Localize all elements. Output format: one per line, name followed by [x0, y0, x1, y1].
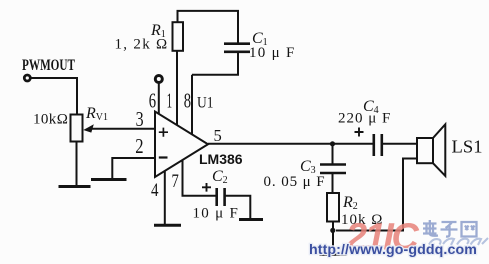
pin 6 terminal circle [155, 76, 162, 83]
svg-text:2: 2 [135, 134, 143, 158]
ground RV1 [59, 185, 91, 188]
wire RV1 bottom to ground [76, 142, 78, 186]
wire C2 right to ground [225, 196, 251, 219]
svg-text:10 μ F: 10 μ F [249, 45, 296, 61]
wire pin 7 to C2 [183, 160, 217, 195]
resistor R2 body [327, 193, 339, 222]
svg-text:7: 7 [172, 171, 179, 192]
wire pin 6 [158, 83, 160, 114]
wire C1 bottom to pin 8 rail [192, 52, 238, 75]
wire C3 top [332, 144, 334, 164]
junction node at pin5/C3 [330, 141, 335, 146]
svg-text:3: 3 [136, 107, 144, 131]
svg-text:PWMOUT: PWMOUT [22, 57, 75, 74]
wire pin 8 to C1 bottom rail [191, 75, 193, 135]
svg-text:U1: U1 [197, 95, 214, 112]
speaker LS1 horn [433, 124, 445, 176]
op-amp plus input sign [159, 128, 168, 137]
svg-text:1: 1 [167, 89, 173, 113]
wire top rail R1 to C1 [178, 11, 239, 43]
svg-text:http://www.go-gddq.com: http://www.go-gddq.com [309, 242, 477, 258]
ground pin2 [91, 178, 127, 181]
svg-text:LS1: LS1 [452, 137, 483, 157]
svg-text:5: 5 [214, 126, 222, 145]
wire C4 to speaker [382, 143, 417, 145]
wire pin 5 output [208, 143, 373, 145]
capacitor C3 plates [320, 165, 346, 174]
watermark 21IC logo [345, 217, 419, 259]
svg-text:220 μ F: 220 μ F [338, 111, 391, 127]
svg-text:LM386: LM386 [199, 151, 243, 167]
capacitor C2 plates [217, 188, 225, 206]
junction node at R2 bottom [330, 228, 335, 233]
ground C2 [239, 218, 263, 221]
watermark second line squiggle [429, 238, 488, 245]
svg-text:8: 8 [184, 89, 191, 113]
potentiometer RV1 body [71, 115, 83, 142]
ground R2 [320, 253, 347, 256]
ground pin4 [154, 224, 181, 227]
wire R2 bottom to ground [332, 222, 334, 254]
wire C3 bottom to R2 [332, 173, 334, 193]
watermark CJK chars (drawn) [423, 220, 477, 237]
wire pin 2 to ground [112, 158, 155, 178]
wire speaker bottom return [336, 159, 417, 231]
plus sign C4 [355, 128, 364, 137]
capacitor C4 plates [374, 134, 382, 156]
svg-text:1, 2k Ω: 1, 2k Ω [115, 37, 169, 53]
plus sign C2 [202, 183, 211, 192]
op-amp U1 triangle [155, 112, 208, 178]
svg-text:6: 6 [149, 89, 156, 113]
svg-text:0. 05 μ F: 0. 05 μ F [264, 174, 326, 190]
wire pin 4 to ground [164, 171, 166, 224]
svg-text:10kΩ: 10kΩ [33, 112, 68, 128]
wire PWMOUT to potentiometer top [31, 78, 78, 115]
svg-text:4: 4 [151, 180, 159, 201]
speaker LS1 body [417, 138, 433, 163]
resistor R1 body [173, 22, 184, 51]
svg-text:10 μ F: 10 μ F [193, 206, 240, 222]
capacitor C1 plates [224, 44, 250, 52]
op-amp minus input sign [159, 156, 168, 158]
wiper arrow RV1 [83, 124, 94, 132]
wire RV1 wiper to pin 3 [91, 128, 155, 130]
wire pin 1 to R1 bottom [176, 51, 178, 125]
node PWMOUT terminal [24, 75, 30, 81]
